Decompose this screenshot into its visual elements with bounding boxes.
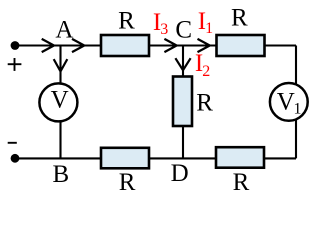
svg-text:R: R: [231, 4, 248, 31]
wire left vertical A-V-B: [59, 46, 61, 159]
plus sign: [8, 58, 22, 71]
voltmeter V circle: [39, 83, 77, 121]
resistor R top-left: [101, 35, 149, 56]
svg-text:B: B: [53, 161, 70, 188]
voltmeter V1 circle: [270, 83, 308, 121]
terminal dot minus: [11, 154, 20, 163]
arrow into A: [42, 39, 54, 52]
svg-text:R: R: [196, 90, 213, 117]
arrow I3 before C: [164, 39, 176, 52]
arrow out of A toward R: [72, 39, 84, 52]
svg-text:A: A: [55, 17, 73, 44]
resistor R middle vertical: [173, 77, 192, 127]
resistor R bottom-right: [216, 147, 264, 168]
wire bottom B-D-right: [15, 157, 296, 159]
arrow I2 down from C: [175, 58, 190, 70]
svg-text:C: C: [175, 16, 192, 43]
arrow down A to V: [54, 59, 68, 71]
arrow I1 after C: [198, 39, 210, 52]
svg-text:2: 2: [202, 63, 210, 80]
wire right vertical to V1: [295, 46, 297, 159]
svg-text:V: V: [277, 89, 295, 116]
resistor R top-right: [217, 35, 265, 56]
svg-text:R: R: [118, 7, 135, 34]
svg-text:D: D: [171, 160, 189, 187]
svg-text:V: V: [51, 87, 69, 114]
svg-text:R: R: [233, 169, 250, 196]
svg-text:1: 1: [205, 20, 213, 37]
svg-text:3: 3: [160, 21, 168, 38]
minus sign: [8, 142, 17, 144]
wire middle vertical C-D: [182, 46, 184, 159]
wire top A-C-right: [15, 44, 296, 46]
resistor R bottom-left: [101, 148, 149, 169]
svg-text:R: R: [119, 169, 136, 196]
terminal dot plus: [11, 41, 20, 50]
svg-text:1: 1: [294, 101, 302, 118]
